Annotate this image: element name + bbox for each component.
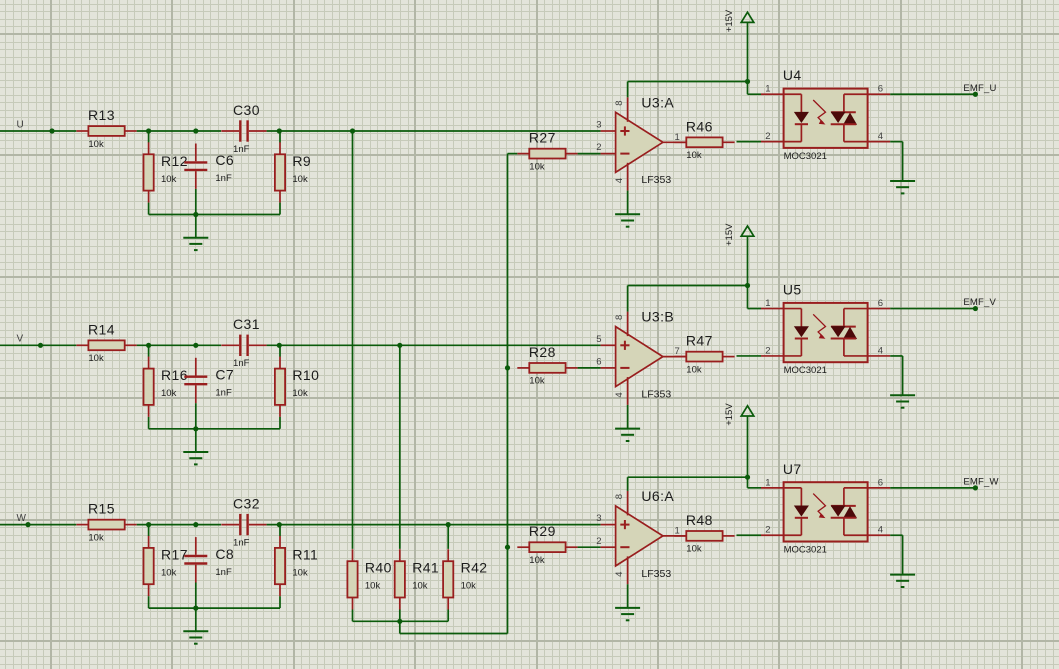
- pin 2 U5: [761, 345, 784, 356]
- wire +15V to U5 pin 1: [748, 286, 762, 309]
- pin 1 (output) U3:A: [663, 132, 686, 143]
- svg-text:EMF_U: EMF_U: [963, 83, 996, 94]
- svg-text:10k: 10k: [461, 581, 477, 592]
- ground U4 pin 4: [890, 142, 915, 194]
- wire W to op-amp non-inverting input: [267, 522, 601, 527]
- svg-text:V: V: [17, 334, 24, 345]
- svg-text:2: 2: [596, 536, 601, 547]
- pin 6 U5: [868, 298, 891, 309]
- svg-text:R13: R13: [88, 107, 115, 123]
- svg-text:10k: 10k: [161, 388, 177, 399]
- wire R48 to U7 pin 2: [737, 534, 762, 536]
- svg-text:1nF: 1nF: [215, 173, 232, 184]
- pin 2 U7: [761, 525, 784, 536]
- svg-text:6: 6: [878, 84, 883, 95]
- resistor R13: [76, 107, 136, 150]
- node W input terminal: [0, 513, 76, 527]
- svg-text:2: 2: [765, 525, 770, 536]
- wire V filter ground rail: [149, 403, 280, 431]
- resistor R40: [347, 549, 391, 609]
- op-amp U3:B value LF353: [641, 389, 671, 401]
- op-amp U3:A value LF353: [641, 174, 671, 186]
- svg-text:EMF_V: EMF_V: [963, 297, 996, 308]
- svg-text:+15V: +15V: [724, 403, 735, 426]
- svg-text:MOC3021: MOC3021: [784, 365, 827, 376]
- resistor R17: [144, 536, 188, 596]
- wire virtual-neutral bus to inverting inputs: [400, 154, 518, 634]
- svg-text:C30: C30: [233, 102, 260, 118]
- pin 3 (+ input) U6:A: [596, 513, 615, 524]
- svg-text:C31: C31: [233, 316, 260, 332]
- pin 5 (+ input) U3:B: [596, 334, 615, 345]
- node EMF_W output: [890, 476, 999, 490]
- svg-text:R14: R14: [88, 321, 115, 337]
- pin 1 U5: [761, 298, 784, 309]
- wire R47 to U5 pin 2: [737, 355, 762, 357]
- svg-text:6: 6: [878, 477, 883, 488]
- svg-text:C6: C6: [215, 152, 234, 168]
- pin 8 (V+) U3:B: [614, 312, 628, 337]
- svg-text:R27: R27: [529, 130, 556, 146]
- svg-text:6: 6: [878, 298, 883, 309]
- svg-text:EMF_W: EMF_W: [963, 476, 998, 487]
- svg-text:MOC3021: MOC3021: [784, 544, 827, 555]
- svg-text:2: 2: [765, 345, 770, 356]
- op-amp U3:B: [616, 309, 675, 387]
- svg-text:4: 4: [614, 178, 625, 183]
- pin 2 (- input) U3:A: [596, 142, 615, 153]
- resistor R28: [517, 344, 577, 387]
- pin 7 (output) U3:B: [663, 346, 686, 357]
- svg-text:U4: U4: [783, 67, 802, 83]
- resistor R9: [275, 142, 311, 202]
- pin 4 U4: [868, 131, 891, 142]
- wire U to op-amp non-inverting input: [267, 128, 601, 133]
- resistor R47: [674, 333, 734, 376]
- wire R29 to op-amp inverting input: [578, 546, 601, 548]
- pin 3 (+ input) U3:A: [596, 120, 615, 131]
- svg-text:1: 1: [675, 525, 680, 536]
- svg-text:R28: R28: [529, 344, 556, 360]
- wire W node after R15: [137, 522, 221, 527]
- node EMF_V output: [890, 297, 996, 311]
- power +15V W: [724, 403, 754, 426]
- optocoupler U7 MOC3021: [783, 461, 868, 556]
- svg-text:10k: 10k: [88, 353, 104, 364]
- ground below U3:A: [615, 191, 640, 227]
- wire R46 to U4 pin 2: [737, 141, 762, 143]
- resistor R27: [517, 130, 577, 173]
- wire R10 top lead: [279, 345, 281, 357]
- svg-text:4: 4: [614, 572, 625, 577]
- svg-text:10k: 10k: [365, 581, 381, 592]
- svg-text:R42: R42: [461, 560, 488, 576]
- svg-text:10k: 10k: [161, 174, 177, 185]
- svg-text:LF353: LF353: [641, 174, 671, 186]
- wire +15V to U4 pin 1: [748, 82, 762, 95]
- optocoupler U5 MOC3021: [783, 282, 868, 377]
- svg-text:U3:B: U3:B: [641, 309, 674, 325]
- ground U5 pin 4: [890, 356, 915, 408]
- svg-text:1nF: 1nF: [233, 358, 250, 369]
- pin 4 (V-) U3:A: [614, 163, 628, 191]
- svg-text:4: 4: [878, 131, 883, 142]
- resistor R16: [144, 357, 188, 417]
- svg-text:2: 2: [596, 142, 601, 153]
- resistor R10: [275, 357, 319, 417]
- svg-text:R9: R9: [292, 153, 311, 169]
- svg-text:LF353: LF353: [641, 568, 671, 580]
- ground W filter: [183, 608, 208, 644]
- svg-text:8: 8: [614, 100, 625, 105]
- wire V to op-amp non-inverting input: [267, 343, 601, 348]
- resistor R15: [76, 501, 136, 544]
- svg-text:R40: R40: [365, 560, 392, 576]
- svg-text:U6:A: U6:A: [641, 488, 674, 504]
- wire R12 top lead: [148, 131, 150, 143]
- resistor R42: [443, 549, 487, 609]
- pin 4 U7: [868, 525, 891, 536]
- wire U phase to R40: [352, 131, 354, 549]
- svg-text:1nF: 1nF: [233, 537, 250, 548]
- pin 6 (- input) U3:B: [596, 357, 615, 368]
- wire R17 top lead: [148, 525, 150, 537]
- svg-text:1: 1: [765, 84, 770, 95]
- pin 6 U4: [868, 84, 891, 95]
- svg-text:1: 1: [675, 132, 680, 143]
- resistor R48: [674, 512, 734, 555]
- svg-text:6: 6: [596, 357, 601, 368]
- pin 1 U4: [761, 84, 784, 95]
- ground U7 pin 4: [890, 535, 915, 587]
- svg-text:10k: 10k: [161, 567, 177, 578]
- wire +15V rail V: [628, 236, 751, 311]
- svg-text:R48: R48: [686, 512, 713, 528]
- svg-text:10k: 10k: [686, 544, 702, 555]
- svg-text:C7: C7: [215, 367, 234, 383]
- svg-text:10k: 10k: [529, 376, 545, 387]
- svg-text:R16: R16: [161, 367, 188, 383]
- op-amp U3:A: [616, 94, 675, 172]
- ground V filter: [183, 429, 208, 465]
- pin 2 (- input) U6:A: [596, 536, 615, 547]
- wire V phase to R41: [399, 345, 401, 549]
- ground below U6:A: [615, 584, 640, 620]
- wire +15V rail U: [628, 22, 751, 97]
- wire U filter ground rail: [149, 189, 280, 217]
- svg-text:R29: R29: [529, 523, 556, 539]
- svg-text:10k: 10k: [292, 388, 308, 399]
- wire W phase to R42: [447, 525, 449, 549]
- svg-text:U: U: [17, 119, 24, 130]
- node V input terminal: [0, 334, 76, 348]
- svg-text:4: 4: [614, 392, 625, 397]
- svg-text:1nF: 1nF: [233, 144, 250, 155]
- svg-text:R11: R11: [292, 546, 318, 562]
- resistor R46: [674, 118, 734, 161]
- wire R28 to op-amp inverting input: [578, 367, 601, 369]
- svg-text:1: 1: [765, 298, 770, 309]
- svg-text:10k: 10k: [412, 581, 428, 592]
- wire U node after R13: [137, 128, 221, 133]
- svg-text:R46: R46: [686, 118, 713, 134]
- svg-text:R12: R12: [161, 153, 188, 169]
- svg-text:10k: 10k: [88, 139, 104, 150]
- svg-text:U5: U5: [783, 282, 802, 298]
- svg-text:10k: 10k: [88, 532, 104, 543]
- svg-text:C32: C32: [233, 495, 260, 511]
- pin 1 U7: [761, 477, 784, 488]
- pin 2 U4: [761, 131, 784, 142]
- svg-text:W: W: [17, 513, 27, 524]
- svg-text:R15: R15: [88, 501, 115, 517]
- capacitor C8: [184, 537, 234, 582]
- svg-text:8: 8: [614, 315, 625, 320]
- svg-text:MOC3021: MOC3021: [784, 151, 827, 162]
- svg-text:+15V: +15V: [724, 223, 735, 246]
- capacitor C30: [221, 102, 266, 155]
- svg-text:10k: 10k: [292, 567, 308, 578]
- svg-text:10k: 10k: [529, 161, 545, 172]
- node EMF_U output: [890, 83, 996, 97]
- svg-text:7: 7: [675, 346, 680, 357]
- svg-text:10k: 10k: [686, 364, 702, 375]
- pin 4 U5: [868, 345, 891, 356]
- capacitor C7: [184, 358, 234, 403]
- svg-text:LF353: LF353: [641, 389, 671, 401]
- resistor R12: [144, 142, 188, 202]
- svg-text:3: 3: [596, 513, 601, 524]
- op-amp U6:A value LF353: [641, 568, 671, 580]
- svg-text:U7: U7: [783, 461, 802, 477]
- power +15V U: [724, 9, 754, 32]
- resistor R29: [517, 523, 577, 566]
- svg-text:3: 3: [596, 120, 601, 131]
- wire +15V to U7 pin 1: [748, 477, 762, 488]
- pin 1 (output) U6:A: [663, 525, 686, 536]
- wire W filter ground rail: [149, 583, 280, 611]
- node U input terminal: [0, 119, 76, 133]
- pin 4 (V-) U6:A: [614, 556, 628, 584]
- svg-text:R47: R47: [686, 333, 713, 349]
- wire +15V rail W: [628, 416, 751, 491]
- wire R27 to op-amp inverting input: [578, 153, 601, 155]
- wire V node after R14: [137, 343, 221, 348]
- svg-text:C8: C8: [215, 546, 234, 562]
- wire summing rail: [353, 610, 449, 624]
- op-amp U6:A: [616, 488, 675, 566]
- wire R16 top lead: [148, 345, 150, 357]
- svg-text:U3:A: U3:A: [641, 94, 674, 110]
- power +15V V: [724, 223, 754, 246]
- svg-text:+15V: +15V: [724, 9, 735, 32]
- svg-text:4: 4: [878, 525, 883, 536]
- svg-text:10k: 10k: [292, 174, 308, 185]
- svg-text:1nF: 1nF: [215, 567, 232, 578]
- svg-text:R17: R17: [161, 546, 188, 562]
- svg-text:R10: R10: [292, 367, 319, 383]
- wire R9 top lead: [279, 131, 281, 143]
- resistor R14: [76, 321, 136, 364]
- capacitor C6: [184, 144, 234, 189]
- optocoupler U4 MOC3021: [783, 67, 868, 162]
- pin 6 U7: [868, 477, 891, 488]
- svg-text:2: 2: [765, 131, 770, 142]
- pin 4 (V-) U3:B: [614, 377, 628, 405]
- resistor R41: [395, 549, 439, 609]
- svg-text:8: 8: [614, 494, 625, 499]
- svg-text:10k: 10k: [686, 150, 702, 161]
- pin 8 (V+) U3:A: [614, 97, 628, 122]
- svg-text:1: 1: [765, 477, 770, 488]
- capacitor C32: [221, 495, 266, 548]
- pin 8 (V+) U6:A: [614, 491, 628, 516]
- svg-text:R41: R41: [412, 560, 439, 576]
- svg-text:4: 4: [878, 345, 883, 356]
- resistor R11: [275, 536, 318, 596]
- svg-text:5: 5: [596, 334, 601, 345]
- svg-text:10k: 10k: [529, 555, 545, 566]
- capacitor C31: [221, 316, 266, 369]
- ground U filter: [183, 215, 208, 251]
- ground below U3:B: [615, 405, 640, 441]
- svg-text:1nF: 1nF: [215, 388, 232, 399]
- wire R11 top lead: [279, 525, 281, 537]
